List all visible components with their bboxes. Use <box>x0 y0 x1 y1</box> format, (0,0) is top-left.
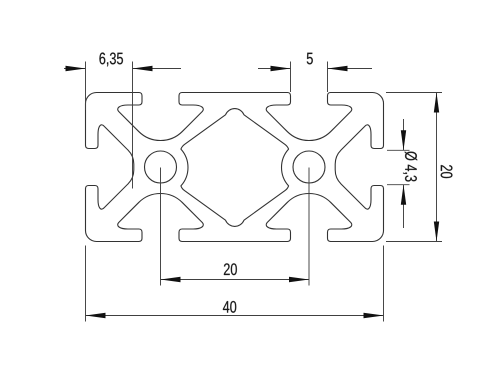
arrowheads 6,35 <box>66 66 86 71</box>
dim bottom 20 lines <box>161 168 310 286</box>
arrowheads dia 4,3 <box>401 130 406 150</box>
center cavity <box>181 109 289 227</box>
arrowheads 40 <box>86 313 106 318</box>
profile outer contour <box>86 93 139 104</box>
slot left end <box>86 125 134 209</box>
slot bottom-left <box>118 193 204 241</box>
dim 5 lines <box>258 68 372 70</box>
label bottom 20 <box>224 263 237 275</box>
slot right end <box>335 125 383 209</box>
arrowheads right 20 <box>434 93 439 113</box>
slot top-left <box>118 93 204 141</box>
dim 40 lines <box>86 246 384 322</box>
label 40 <box>223 301 236 313</box>
dim right 20 lines <box>386 93 442 242</box>
core hole right <box>293 151 325 183</box>
label dia 4,3 <box>403 151 417 181</box>
arrowheads 5 <box>271 66 291 71</box>
arrowheads bottom 20 <box>161 277 181 282</box>
slot top-right <box>266 93 352 141</box>
label right 20 <box>441 165 453 178</box>
slot bottom-right <box>266 193 352 241</box>
label 6,35 <box>99 53 123 67</box>
dim 6,35 lines <box>64 68 181 70</box>
dim dia 4,3 lines <box>387 150 410 184</box>
core hole left <box>145 151 177 183</box>
label 5 <box>307 53 313 65</box>
